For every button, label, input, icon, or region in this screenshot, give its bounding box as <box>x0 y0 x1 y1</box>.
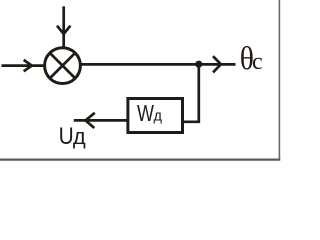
arrowhead left input <box>24 60 32 71</box>
arrowhead block output pointing left <box>86 113 95 128</box>
svg-text:U: U <box>59 122 74 149</box>
wire feedback branch down and left into block <box>184 64 199 122</box>
svg-text:д: д <box>154 109 163 125</box>
svg-text:c: c <box>252 49 263 75</box>
arrowhead output <box>213 56 221 72</box>
wire left input <box>2 64 46 67</box>
svg-text:д: д <box>73 124 86 149</box>
scan page border right <box>278 0 280 160</box>
label W_d inside block <box>137 101 163 127</box>
arrowhead top input <box>57 26 70 34</box>
svg-text:W: W <box>137 101 154 127</box>
wire block output left <box>74 119 128 122</box>
wire top input shaft <box>62 6 65 47</box>
X cross inside summing junction <box>51 54 75 78</box>
label theta_c <box>240 40 263 77</box>
scan page border bottom <box>0 158 280 160</box>
summing junction circle <box>45 48 81 84</box>
block W_d rectangle <box>128 99 183 133</box>
label U_d <box>59 122 86 149</box>
node junction dot <box>195 61 202 68</box>
wire output to theta_c <box>81 63 236 66</box>
